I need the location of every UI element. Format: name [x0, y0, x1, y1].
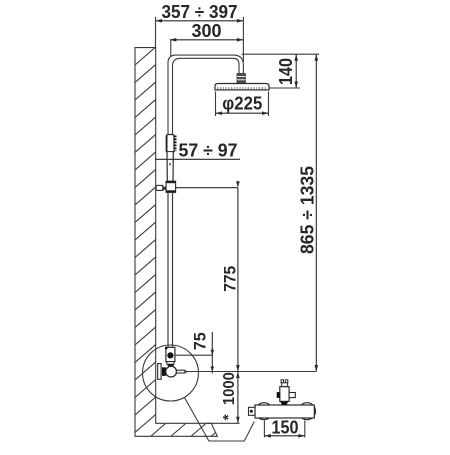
- svg-text:775: 775: [221, 266, 240, 292]
- shower head connector nut: [237, 74, 245, 84]
- svg-text:75: 75: [191, 332, 210, 350]
- dimension 150: [264, 418, 304, 438]
- leader line from detail circle to mixer: [185, 398, 255, 442]
- riser pipe and top arm (outer contour): [168, 55, 243, 347]
- mixer diverter knob: [277, 380, 296, 405]
- svg-text:*: *: [220, 414, 237, 420]
- dimension 300: [170, 21, 244, 56]
- wall and floor hatched section: [135, 0, 218, 455]
- svg-text:300: 300: [192, 21, 222, 41]
- riser pipe and top arm (inner contour): [173, 58, 240, 347]
- dimension 775: [176, 181, 240, 371]
- dimension 140: [242, 54, 320, 88]
- external thermostatic mixer: [249, 403, 316, 420]
- svg-text:865 ÷ 1335: 865 ÷ 1335: [298, 166, 318, 254]
- svg-text:357 ÷ 397: 357 ÷ 397: [162, 2, 238, 22]
- riser pipe lower section: [168, 192, 173, 347]
- svg-text:140: 140: [276, 58, 296, 85]
- svg-text:1000: 1000: [221, 372, 238, 405]
- diverter valve (in detail circle): [165, 347, 175, 367]
- label 57÷97: [155, 141, 240, 161]
- dimension 865÷1335: [298, 54, 319, 371]
- svg-text:φ225: φ225: [222, 94, 262, 114]
- dimension 1000 with asterisk: [206, 372, 240, 424]
- valve centre reference line: [187, 371, 316, 373]
- svg-text:150: 150: [272, 418, 299, 438]
- hand shower wall bracket: [156, 181, 176, 192]
- dimension 357÷397: [156, 2, 244, 62]
- dimension 75: [174, 332, 215, 374]
- detail circle: [143, 345, 199, 401]
- hand shower handle: [166, 135, 175, 182]
- overhead shower head: [215, 84, 269, 90]
- mixing valve with lever (in detail circle): [158, 364, 187, 380]
- svg-text:57 ÷ 97: 57 ÷ 97: [179, 141, 238, 161]
- dimension Ø225: [216, 92, 269, 117]
